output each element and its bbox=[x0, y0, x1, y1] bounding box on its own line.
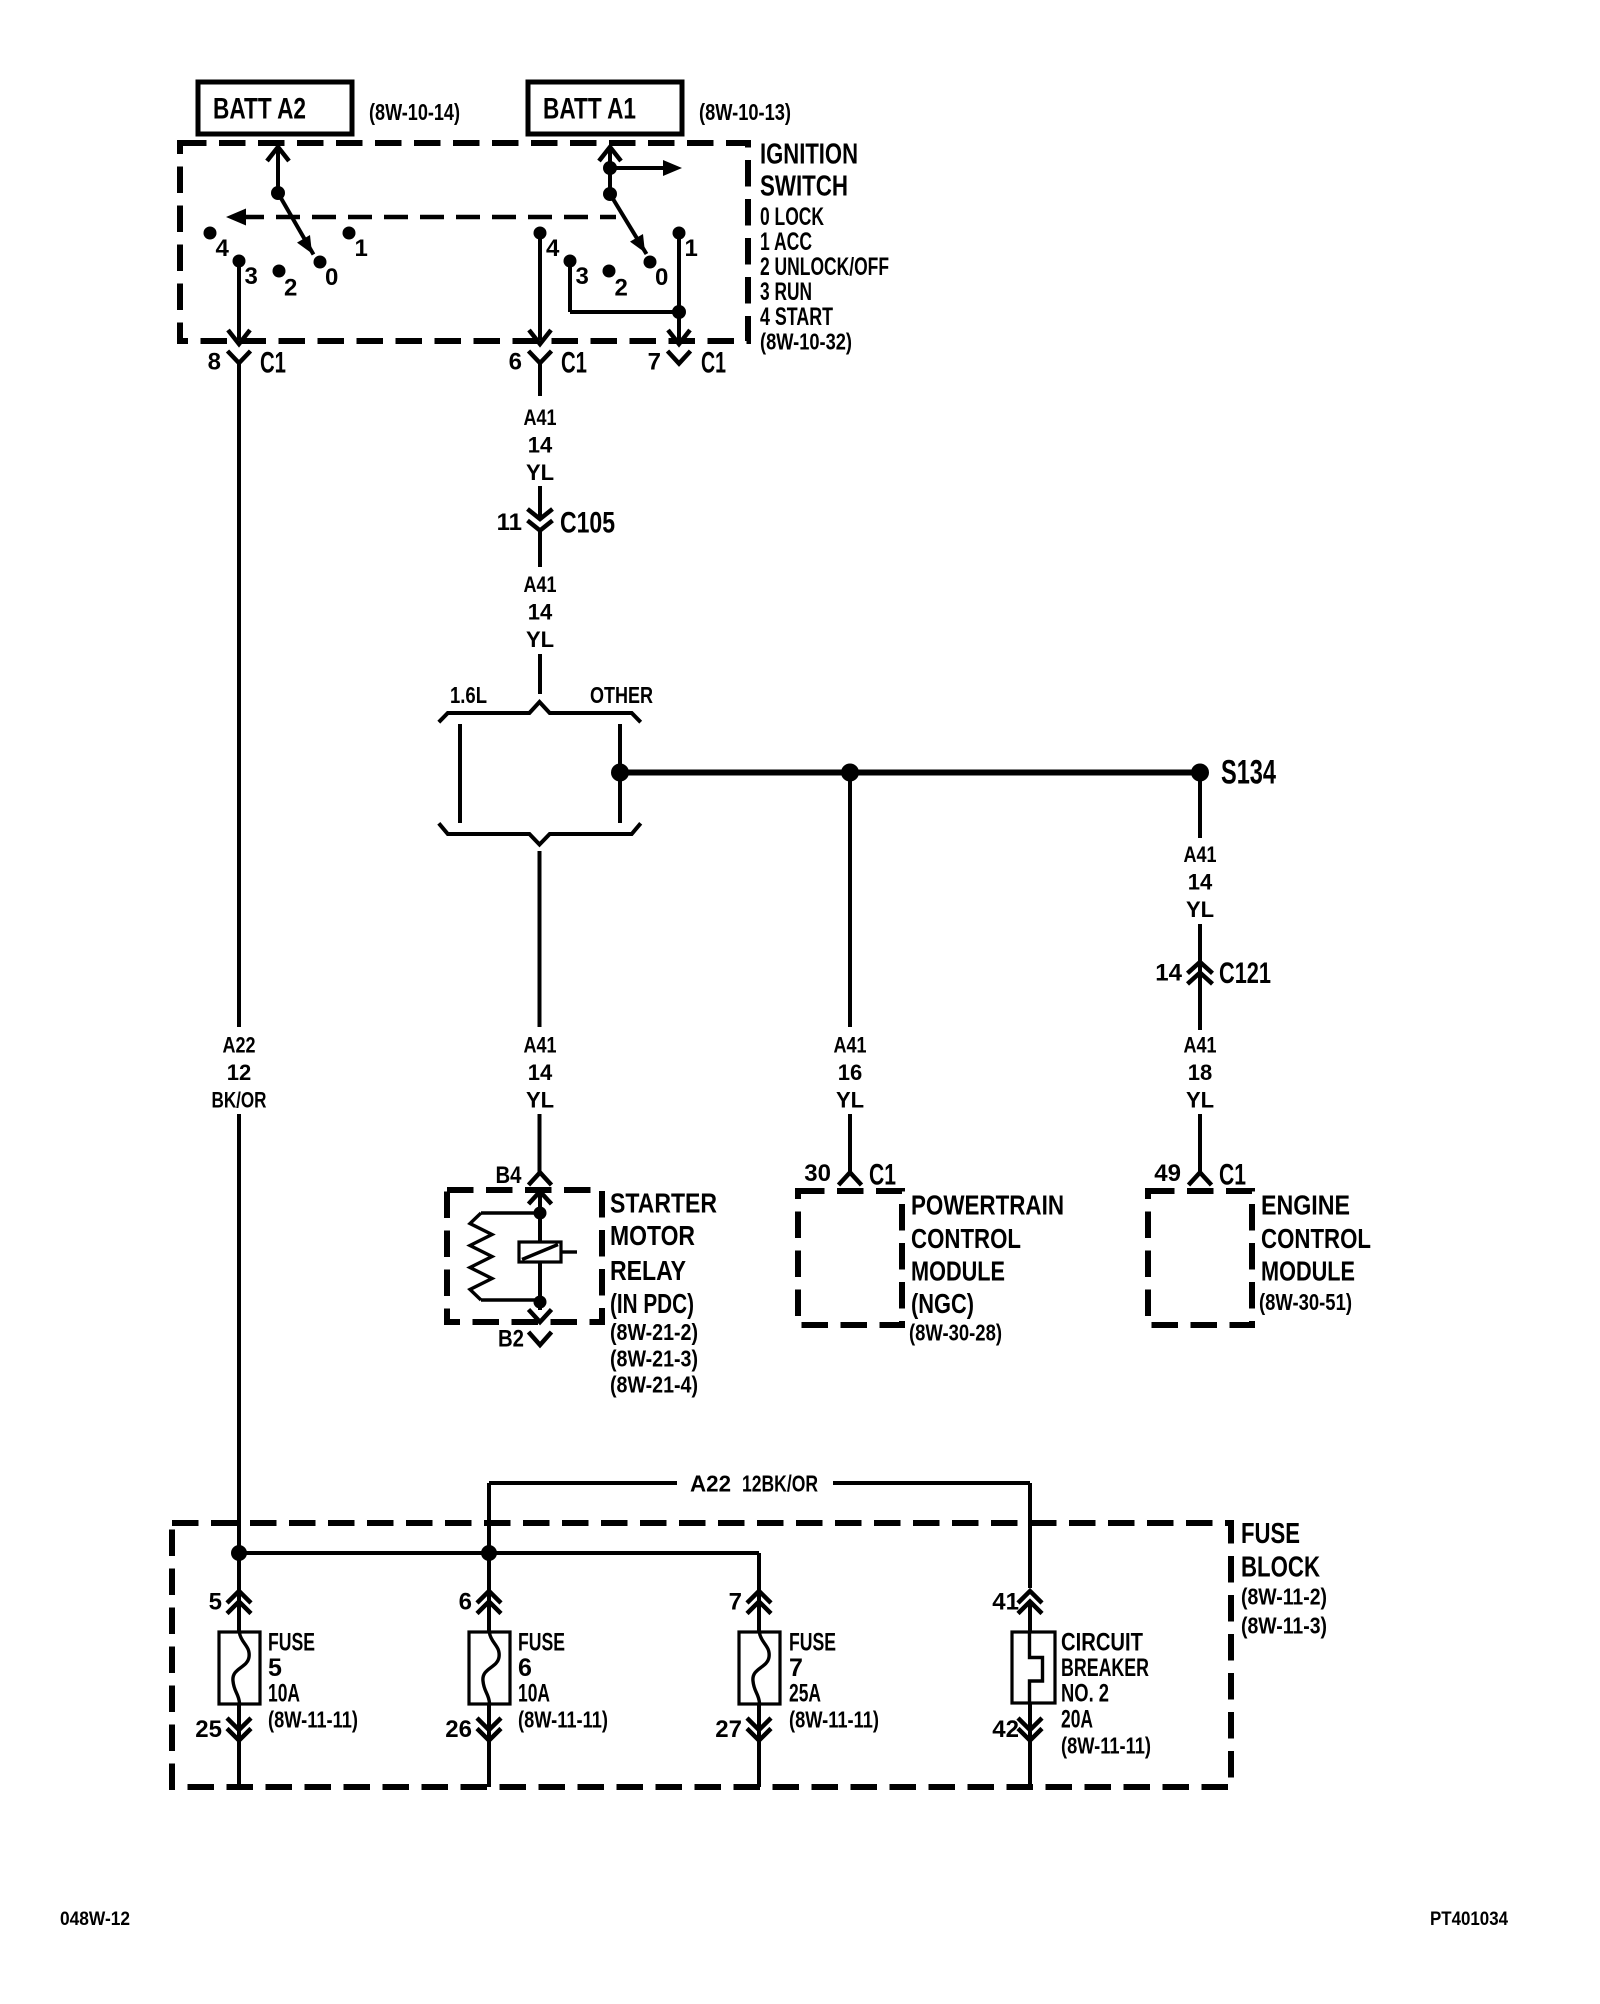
svg-text:14: 14 bbox=[1155, 960, 1182, 987]
svg-text:BREAKER: BREAKER bbox=[1061, 1654, 1149, 1682]
fuse 5 label text bbox=[268, 1629, 358, 1733]
switch pole dot A2 bbox=[271, 186, 285, 200]
svg-text:MODULE: MODULE bbox=[911, 1256, 1005, 1287]
connector pin 7 C1 (terminates) bbox=[648, 347, 726, 380]
svg-text:YL: YL bbox=[836, 1088, 864, 1113]
svg-text:14: 14 bbox=[528, 600, 553, 625]
svg-text:(8W-21-3): (8W-21-3) bbox=[610, 1346, 698, 1372]
connector pin 6 C1 bbox=[509, 347, 587, 397]
wire label A41 14 YL (relay branch) bbox=[524, 1033, 557, 1113]
svg-text:RELAY: RELAY bbox=[610, 1255, 686, 1286]
svg-text:C1: C1 bbox=[1219, 1159, 1246, 1192]
fuse 7 element bbox=[739, 1632, 780, 1704]
bus junction dot fuse 6 bbox=[481, 1545, 497, 1561]
svg-text:18: 18 bbox=[1188, 1060, 1212, 1085]
relay coil resistor branch bbox=[470, 1213, 540, 1300]
wire terminal 1 down to connector pin 7 with arrow bbox=[668, 233, 690, 344]
connector pin 8 C1 bbox=[208, 347, 286, 401]
svg-text:1: 1 bbox=[355, 235, 368, 262]
svg-text:C105: C105 bbox=[560, 507, 615, 540]
wire to PCM pin 30 bbox=[848, 1114, 852, 1172]
svg-text:S134: S134 bbox=[1221, 754, 1276, 792]
battery feed box BATT A1 bbox=[528, 82, 682, 134]
switch pole lower dot A1 bbox=[603, 187, 617, 201]
wire to ECM pin 49 bbox=[1198, 1114, 1202, 1172]
wire terminal 4 down to connector pin 6 with arrow bbox=[529, 233, 551, 344]
fuse 6 element bbox=[469, 1632, 510, 1704]
svg-text:(8W-10-14): (8W-10-14) bbox=[369, 99, 460, 125]
svg-text:26: 26 bbox=[445, 1716, 472, 1743]
wire to C121 bbox=[1198, 924, 1202, 1030]
svg-text:CIRCUIT: CIRCUIT bbox=[1061, 1629, 1143, 1657]
svg-text:2 UNLOCK/OFF: 2 UNLOCK/OFF bbox=[760, 253, 889, 281]
powertrain control module dashed box bbox=[798, 1191, 902, 1325]
svg-text:BLOCK: BLOCK bbox=[1241, 1552, 1320, 1584]
svg-text:B4: B4 bbox=[496, 1162, 523, 1189]
svg-text:27: 27 bbox=[715, 1716, 742, 1743]
wire label A41 14 YL (mid) bbox=[524, 572, 557, 652]
starter motor relay dashed box bbox=[447, 1190, 602, 1322]
fuse block label text bbox=[1241, 1518, 1327, 1639]
wire to relay connector B4 bbox=[538, 1114, 542, 1172]
svg-text:16: 16 bbox=[838, 1060, 862, 1085]
switch A1 terminal 4 bbox=[534, 227, 561, 263]
engine control module label text bbox=[1259, 1190, 1371, 1316]
svg-text:C121: C121 bbox=[1219, 957, 1271, 990]
starter motor relay label text bbox=[610, 1188, 717, 1398]
switch A1 terminal 1 bbox=[673, 227, 698, 263]
switch wiper arm A1 (to position 0) bbox=[610, 194, 647, 254]
switch A2 terminal 3 bbox=[233, 255, 258, 291]
fuse block bus wire bbox=[239, 1551, 759, 1555]
mechanical gang dashed line with left arrow bbox=[226, 209, 616, 226]
svg-text:C1: C1 bbox=[561, 347, 587, 380]
OTHER branch wire bbox=[618, 724, 622, 823]
ignition switch dashed enclosure bbox=[180, 143, 748, 341]
fuse 5 terminal wires and cavity chevrons pins 5/25 bbox=[195, 1553, 251, 1787]
svg-text:MODULE: MODULE bbox=[1261, 1256, 1355, 1287]
svg-text:(8W-11-11): (8W-11-11) bbox=[268, 1707, 358, 1733]
splice S134 bbox=[1191, 754, 1276, 792]
switch A2 terminal 0 bbox=[314, 256, 339, 292]
svg-text:(8W-21-4): (8W-21-4) bbox=[610, 1372, 698, 1398]
svg-text:7: 7 bbox=[729, 1589, 742, 1616]
svg-text:12: 12 bbox=[227, 1060, 251, 1085]
svg-text:A41: A41 bbox=[524, 405, 557, 430]
powertrain control module label text bbox=[909, 1190, 1064, 1346]
svg-text:42: 42 bbox=[992, 1716, 1019, 1743]
svg-text:YL: YL bbox=[1186, 1088, 1214, 1113]
battery feed box BATT A2 bbox=[198, 82, 352, 134]
wire label A41 18 YL (ECM branch lower) bbox=[1184, 1033, 1217, 1113]
svg-text:20A: 20A bbox=[1061, 1706, 1093, 1734]
svg-text:A22: A22 bbox=[690, 1471, 731, 1497]
svg-text:(8W-11-11): (8W-11-11) bbox=[518, 1707, 608, 1733]
svg-text:CONTROL: CONTROL bbox=[1261, 1223, 1371, 1254]
svg-text:3 RUN: 3 RUN bbox=[760, 278, 812, 306]
svg-text:4: 4 bbox=[216, 235, 230, 262]
svg-text:7: 7 bbox=[789, 1654, 803, 1682]
svg-text:FUSE: FUSE bbox=[789, 1629, 836, 1657]
engine control module dashed box bbox=[1148, 1191, 1252, 1325]
svg-text:A41: A41 bbox=[524, 1033, 557, 1058]
upper selection brace bbox=[439, 702, 641, 722]
svg-text:10A: 10A bbox=[518, 1680, 550, 1708]
wire A22 12BK/OR jumper (top horizontal) bbox=[489, 1483, 1030, 1588]
inline connector 14 C121 bbox=[1155, 957, 1271, 990]
svg-text:1: 1 bbox=[685, 235, 698, 262]
svg-text:1 ACC: 1 ACC bbox=[760, 228, 812, 256]
switch A1 terminal 2 bbox=[603, 265, 628, 302]
splice junction dot on OTHER branch bbox=[611, 764, 629, 782]
accessory feed arrow right bbox=[610, 160, 682, 176]
svg-text:14: 14 bbox=[528, 433, 553, 458]
svg-text:YL: YL bbox=[1186, 897, 1214, 922]
switch wiper arm A2 (to position 0) bbox=[278, 193, 314, 255]
svg-text:C1: C1 bbox=[260, 347, 286, 380]
fuse 7 label text bbox=[789, 1629, 879, 1733]
connector pin 49 C1 (ECM) bbox=[1154, 1159, 1246, 1192]
fuse 6 label text bbox=[518, 1629, 608, 1733]
svg-text:(8W-11-11): (8W-11-11) bbox=[789, 1707, 879, 1733]
svg-text:6: 6 bbox=[459, 1589, 472, 1616]
svg-text:A22: A22 bbox=[223, 1033, 256, 1058]
wire label A41 16 YL (PCM branch) bbox=[834, 1033, 867, 1113]
relay junction dot bottom bbox=[534, 1296, 547, 1309]
fuse 5 element bbox=[219, 1632, 260, 1704]
wire terminal 3 jog to terminal 1 leg bbox=[570, 261, 679, 312]
svg-text:5: 5 bbox=[209, 1589, 222, 1616]
fuse 7 terminal wires and cavity chevrons pins 7/27 bbox=[715, 1588, 771, 1787]
svg-text:FUSE: FUSE bbox=[268, 1629, 315, 1657]
svg-text:SWITCH: SWITCH bbox=[760, 171, 848, 203]
wire switch pole A1 to BATT A1 with up arrow bbox=[599, 147, 621, 194]
svg-text:BATT A1: BATT A1 bbox=[543, 93, 636, 126]
svg-text:STARTER: STARTER bbox=[610, 1188, 717, 1219]
svg-text:(8W-10-32): (8W-10-32) bbox=[760, 329, 852, 355]
svg-text:PT401034: PT401034 bbox=[1430, 1909, 1508, 1930]
svg-text:C1: C1 bbox=[869, 1159, 896, 1192]
wire label A41 14 YL (upper) bbox=[524, 405, 557, 485]
svg-text:YL: YL bbox=[526, 460, 554, 485]
svg-text:BK/OR: BK/OR bbox=[212, 1088, 267, 1113]
svg-text:(8W-11-3): (8W-11-3) bbox=[1241, 1613, 1327, 1639]
svg-text:(NGC): (NGC) bbox=[911, 1288, 974, 1319]
svg-text:(8W-30-28): (8W-30-28) bbox=[909, 1320, 1002, 1346]
junction dot terminal1/terminal3 bbox=[672, 305, 686, 319]
wire C105 down bbox=[538, 530, 542, 567]
svg-text:YL: YL bbox=[526, 1088, 554, 1113]
circuit breaker label text bbox=[1061, 1629, 1151, 1759]
wire pin6 to C105 bbox=[538, 486, 542, 517]
svg-text:MOTOR: MOTOR bbox=[610, 1220, 695, 1251]
wire label A22 12BK/OR (jumper) bbox=[690, 1471, 818, 1497]
svg-text:(8W-10-13): (8W-10-13) bbox=[699, 99, 791, 125]
switch A2 terminal 4 bbox=[204, 227, 230, 263]
svg-text:7: 7 bbox=[648, 349, 661, 376]
svg-text:14: 14 bbox=[528, 1060, 553, 1085]
svg-text:FUSE: FUSE bbox=[518, 1629, 565, 1657]
svg-text:11: 11 bbox=[497, 509, 522, 536]
wire S134 down bbox=[1198, 773, 1202, 839]
svg-text:BATT A2: BATT A2 bbox=[213, 93, 306, 126]
svg-text:6: 6 bbox=[509, 349, 522, 376]
relay coil box with actuator stub bbox=[519, 1242, 577, 1262]
inline connector 11 C105 bbox=[497, 507, 615, 540]
switch pole upper dot A1 bbox=[603, 161, 617, 175]
wire splice run to S134 bbox=[620, 770, 1200, 776]
svg-text:IGNITION: IGNITION bbox=[760, 138, 858, 170]
svg-text:49: 49 bbox=[1154, 1160, 1181, 1187]
svg-text:5: 5 bbox=[268, 1654, 282, 1682]
svg-text:POWERTRAIN: POWERTRAIN bbox=[911, 1190, 1064, 1221]
svg-text:(8W-11-2): (8W-11-2) bbox=[1241, 1584, 1327, 1610]
svg-text:CONTROL: CONTROL bbox=[911, 1223, 1021, 1254]
svg-text:B2: B2 bbox=[498, 1326, 524, 1353]
svg-text:ENGINE: ENGINE bbox=[1261, 1190, 1350, 1221]
svg-text:A41: A41 bbox=[524, 572, 557, 597]
fuse block dashed enclosure bbox=[172, 1523, 1231, 1787]
relay B4 terminal arrow (inside box) bbox=[529, 1192, 552, 1214]
junction dot to PCM branch bbox=[841, 764, 859, 782]
svg-text:0: 0 bbox=[325, 264, 338, 291]
svg-text:25: 25 bbox=[195, 1716, 222, 1743]
svg-text:4: 4 bbox=[546, 235, 560, 262]
svg-text:(8W-11-11): (8W-11-11) bbox=[1061, 1733, 1151, 1759]
svg-text:OTHER: OTHER bbox=[590, 682, 653, 708]
svg-text:A41: A41 bbox=[1184, 1033, 1217, 1058]
bus corner down to fuse 7 bbox=[757, 1553, 761, 1588]
svg-text:0 LOCK: 0 LOCK bbox=[760, 203, 824, 231]
switch A2 terminal 2 bbox=[273, 265, 298, 302]
svg-text:2: 2 bbox=[615, 275, 628, 302]
wire into engine-option brace bbox=[538, 654, 542, 694]
svg-text:10A: 10A bbox=[268, 1680, 300, 1708]
svg-text:1.6L: 1.6L bbox=[450, 682, 487, 708]
svg-text:A41: A41 bbox=[1184, 842, 1217, 867]
svg-text:12BK/OR: 12BK/OR bbox=[742, 1471, 818, 1497]
svg-text:30: 30 bbox=[804, 1160, 831, 1187]
bus junction dot fuse 5 bbox=[231, 1545, 247, 1561]
relay junction dot top bbox=[534, 1207, 547, 1220]
wire pin 8 down (upper) bbox=[237, 363, 241, 1027]
svg-text:(IN PDC): (IN PDC) bbox=[610, 1288, 694, 1319]
connector pin 30 C1 (PCM) bbox=[804, 1159, 896, 1192]
wire splice to PCM bbox=[848, 773, 852, 1028]
circuit breaker no.2 terminal wires and cavity chevrons pins 41/42 bbox=[992, 1589, 1042, 1788]
svg-text:3: 3 bbox=[245, 263, 258, 290]
svg-text:0: 0 bbox=[655, 264, 668, 291]
1.6L branch wire bbox=[458, 724, 462, 823]
relay coil wire through bbox=[538, 1213, 542, 1302]
svg-text:8: 8 bbox=[208, 349, 221, 376]
switch A1 terminal 0 bbox=[644, 256, 669, 292]
ignition switch label text block bbox=[760, 138, 889, 354]
wire switch pole A2 to BATT A2 with up arrow bbox=[267, 147, 289, 193]
svg-text:2: 2 bbox=[284, 275, 297, 302]
svg-text:3: 3 bbox=[576, 263, 589, 290]
svg-text:41: 41 bbox=[992, 1589, 1019, 1616]
fuse 6 terminal wires and cavity chevrons pins 6/26 bbox=[445, 1553, 501, 1787]
wire label A22 12 BK/OR bbox=[212, 1033, 267, 1113]
svg-text:4 START: 4 START bbox=[760, 303, 833, 331]
switch A1 terminal 3 bbox=[564, 255, 589, 291]
svg-text:YL: YL bbox=[526, 627, 554, 652]
connector B2 below relay bbox=[498, 1326, 552, 1353]
svg-text:FUSE: FUSE bbox=[1241, 1518, 1300, 1550]
wire brace to relay (upper) bbox=[538, 851, 542, 1027]
wire pin 8 down (lower) into fuse block bbox=[237, 1114, 241, 1553]
svg-text:A41: A41 bbox=[834, 1033, 867, 1058]
svg-text:(8W-30-51): (8W-30-51) bbox=[1259, 1289, 1352, 1315]
wire label A41 14 YL (ECM branch upper) bbox=[1184, 842, 1217, 922]
svg-text:C1: C1 bbox=[701, 347, 726, 380]
svg-text:048W-12: 048W-12 bbox=[60, 1909, 130, 1930]
lower selection brace bbox=[439, 823, 641, 844]
svg-text:NO. 2: NO. 2 bbox=[1061, 1680, 1109, 1708]
circuit breaker no.2 element bbox=[1012, 1632, 1055, 1703]
switch A2 terminal 1 bbox=[343, 227, 368, 263]
connector B4 bbox=[496, 1162, 552, 1189]
svg-text:25A: 25A bbox=[789, 1680, 821, 1708]
relay B2 terminal arrow to box edge bbox=[529, 1302, 552, 1322]
svg-text:14: 14 bbox=[1188, 870, 1213, 895]
svg-text:6: 6 bbox=[518, 1654, 532, 1682]
wire terminal 3 down to connector pin 8 with arrow bbox=[228, 261, 250, 344]
svg-text:(8W-21-2): (8W-21-2) bbox=[610, 1319, 698, 1345]
